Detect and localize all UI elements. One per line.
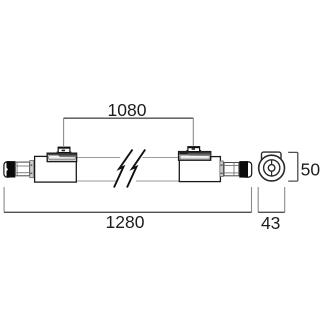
svg-text:50: 50 bbox=[301, 160, 321, 180]
svg-text:1280: 1280 bbox=[106, 212, 145, 232]
svg-text:1080: 1080 bbox=[108, 100, 147, 120]
svg-text:43: 43 bbox=[261, 213, 280, 233]
